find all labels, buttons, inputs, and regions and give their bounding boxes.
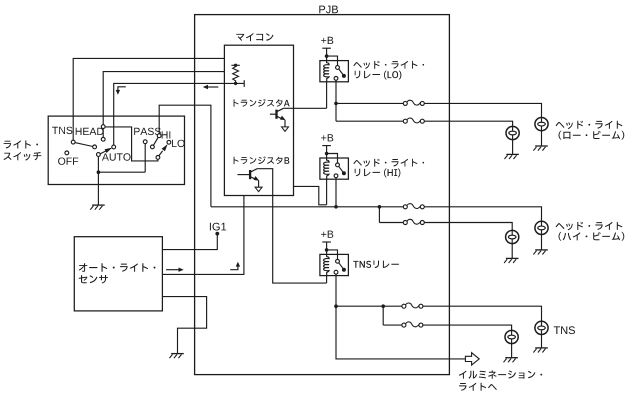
switch lever AUTO: [100, 148, 112, 154]
microcomputer box (マイコン): [224, 45, 293, 195]
wire +B to TNS coil: [326, 250, 328, 255]
resistor top rail: [231, 64, 239, 66]
wire lamp L to ground: [512, 140, 514, 155]
AUTO line end tick: [243, 80, 245, 87]
wire HEAD switch input to microcomputer: [103, 72, 224, 125]
transistor Q-B emitter: [250, 176, 259, 181]
ground of auto light sensor: [169, 354, 183, 359]
fuse HI row2: [403, 219, 424, 224]
label illumination line1: [459, 370, 542, 378]
switch lever HI: [154, 137, 159, 145]
contact wiper tip: [93, 145, 97, 149]
relay HI arm tip: [342, 171, 346, 175]
ground of TNS lamp L: [504, 358, 518, 363]
LO relay coil lead down: [326, 82, 328, 109]
wire PASS contact to common: [144, 144, 146, 173]
auto light sensor box: [74, 237, 162, 311]
node LO output junction: [334, 102, 338, 106]
wire HI relay output down: [335, 178, 337, 207]
transistor Q-A emitter to-ground arrow: [282, 127, 289, 131]
transistor Q-A emitter: [277, 116, 286, 121]
transistor Q-A emitter lead: [284, 120, 286, 127]
wire IG1 to sensor: [162, 234, 217, 250]
relay HI coil: [324, 158, 329, 179]
wire LO junction down: [335, 103, 337, 121]
relay LO label line1: [353, 61, 424, 69]
contact LO: [167, 140, 171, 144]
+B label of TNS: [321, 231, 333, 238]
contact HEAD upper: [101, 125, 105, 129]
illumination output arrow: [465, 353, 479, 365]
sensor label line2: [79, 275, 108, 284]
transistor Q-A base lead: [270, 113, 277, 115]
sensor label line1: [79, 263, 156, 272]
fuse TNS row2: [402, 322, 423, 327]
+B label of LO: [321, 37, 333, 44]
wire sensor output to microcomputer: [162, 196, 244, 275]
relay LO coil: [324, 61, 329, 82]
transistor Q-B base bar: [249, 170, 251, 179]
relay HI label line2: [355, 169, 401, 178]
wire TNS output to illumination: [336, 306, 465, 359]
relay TNS output contact: [334, 270, 338, 274]
wire switch common: [97, 156, 99, 172]
relay TNS movable arm: [339, 263, 344, 269]
wire HI row1: [211, 206, 403, 208]
wire +B to LO coil: [326, 56, 328, 61]
label OFF position: [58, 158, 78, 165]
+B label of HI: [321, 134, 333, 141]
wire LO row2 to fuse: [336, 120, 403, 122]
relay LO label line2: [355, 71, 402, 80]
wire common to PASS: [98, 171, 145, 173]
wire +B to HI coil: [326, 154, 328, 159]
relay LO output contact: [334, 77, 338, 81]
TNS relay coil lead down: [326, 276, 328, 284]
ground of TNS lamp R: [533, 348, 547, 353]
wire fuse to high-beam lamp R: [424, 207, 541, 222]
wire Q-B collector to TNS relay coil: [257, 169, 327, 283]
direction arrow right on sensor output: [166, 268, 184, 272]
fuse TNS row1: [402, 303, 423, 308]
relay HI movable arm: [339, 166, 344, 172]
label HI position: [162, 131, 171, 138]
label IG1: [210, 223, 226, 231]
wire fuse to TNS lamp L: [423, 325, 512, 330]
node HI output junction: [334, 205, 338, 209]
wire LO row1 to fuse: [336, 102, 403, 104]
wire sensor to ground: [162, 297, 206, 354]
transistor Q-A base bar: [275, 110, 277, 119]
label illumination line2: [459, 383, 497, 391]
label LO position: [172, 140, 185, 147]
PJB box: [195, 15, 450, 375]
wire high lamp L to ground: [511, 244, 513, 259]
+B terminal of LO: [322, 48, 331, 58]
ground of light switch: [90, 205, 104, 210]
wire lamp R to ground: [541, 131, 543, 146]
PJB label: [319, 6, 338, 14]
label head light high beam line2: [559, 232, 625, 241]
HI relay coil lead down: [326, 179, 328, 205]
transistor Q-B emitter lead: [258, 180, 260, 187]
fuse LO row1: [403, 100, 424, 105]
switch lever LO: [159, 144, 168, 156]
node TNS fuse branch: [381, 304, 385, 308]
label head light low beam line2: [559, 131, 625, 140]
resistor R (pull-up in microcomputer): [233, 65, 239, 83]
transistor Q-B emitter to-ground arrow: [255, 187, 262, 192]
lamp head light low R: [535, 118, 548, 131]
lamp head light high R: [535, 221, 548, 234]
lamp TNS L: [505, 330, 518, 343]
contact HEAD lower: [101, 137, 105, 141]
fuse HI row1: [403, 204, 424, 209]
wire +B to LO contact: [327, 56, 338, 67]
switch lever TNS: [75, 143, 93, 147]
relay LO box: [320, 61, 349, 82]
transistor Q-B collector: [250, 169, 257, 173]
relay TNS label: [353, 261, 399, 269]
relay TNS fixed contact (feed): [336, 259, 340, 263]
wire TNS lamp R to ground: [541, 335, 543, 348]
wire TNS branch down: [382, 306, 384, 325]
label head light high beam line1: [556, 222, 623, 231]
transistor Q-B base lead: [238, 174, 251, 176]
transistor Q-A collector: [277, 108, 284, 112]
light switch box: [48, 116, 184, 184]
label TNS lamp: [554, 326, 575, 334]
relay HI box: [320, 158, 349, 179]
resistor bottom junction on AUTO line: [234, 82, 237, 85]
relay TNS arm tip: [342, 268, 346, 272]
contact LO pivot: [156, 156, 160, 160]
lamp head light low L: [506, 126, 519, 139]
relay LO arm tip: [342, 74, 346, 78]
wire AUTO line microcomputer to switch: [114, 83, 245, 145]
relay HI label line1: [353, 159, 424, 167]
resistor top junction: [234, 64, 237, 67]
relay LO movable arm: [339, 69, 344, 75]
contact HI pivot: [151, 145, 155, 149]
ground of low-beam lamp L: [505, 154, 519, 159]
transistor B label: [234, 156, 290, 164]
label head light low beam line1: [556, 121, 623, 130]
relay TNS coil: [324, 254, 329, 275]
light switch label line1: [4, 140, 38, 148]
transistor A label: [234, 99, 290, 107]
wire LO relay output down: [335, 80, 337, 104]
wire TNS switch input to microcomputer: [73, 58, 224, 140]
wire TNS row1: [336, 305, 402, 307]
contact TNS: [71, 140, 75, 144]
wire +B to HI contact: [327, 154, 338, 165]
wire microcomputer to HI relay coil: [294, 186, 327, 204]
wire fuse to low-beam lamp L: [424, 121, 512, 126]
wire TNS lamp L to ground: [511, 344, 513, 358]
wire HI row2 to fuse: [379, 222, 403, 224]
label HEAD position: [76, 128, 104, 135]
+B terminal of TNS: [322, 242, 331, 252]
direction arrow down near switch on AUTO line: [116, 87, 126, 95]
contact OFF: [65, 151, 69, 155]
wire Q-A collector to LO relay coil: [284, 107, 327, 109]
wire TNS relay output down: [335, 274, 337, 306]
wire common to ground: [97, 172, 99, 205]
lamp TNS R: [535, 321, 548, 334]
relay HI fixed contact (feed): [336, 163, 340, 167]
lamp head light high L: [506, 230, 519, 243]
wire fuse to high-beam lamp L: [424, 223, 512, 231]
wire TNS row2 to fuse: [383, 324, 402, 326]
label AUTO position: [102, 153, 131, 160]
light switch label line2: [4, 152, 42, 161]
wire HI branch down: [378, 207, 380, 223]
ground of high-beam lamp L: [504, 258, 518, 263]
direction arrow left on AUTO line: [203, 85, 219, 89]
wire dimmer HI contact to HI output line: [159, 105, 211, 207]
relay LO fixed contact (feed): [336, 66, 340, 70]
wire HEAD feed to dimmer common: [105, 127, 158, 161]
wire fuse to TNS lamp R: [423, 306, 542, 321]
microcomputer label: [236, 33, 273, 41]
node switch common junction: [97, 170, 101, 174]
label PASS position: [134, 128, 161, 135]
contact wiper pivot: [97, 153, 101, 157]
node IG1 terminal: [215, 232, 219, 236]
direction arrow up near microcomputer: [230, 262, 240, 270]
node TNS output junction: [334, 304, 338, 308]
wire high lamp R to ground: [541, 235, 543, 250]
node HI fuse branch: [378, 205, 382, 209]
contact AUTO: [112, 145, 116, 149]
wire fuse to low-beam lamp R: [424, 103, 541, 117]
fuse LO row2: [403, 118, 424, 123]
ground of high-beam lamp R: [533, 250, 547, 255]
wire +B to TNS contact: [327, 250, 338, 261]
contact HI: [157, 134, 161, 138]
ground of low-beam lamp R: [533, 146, 547, 151]
relay TNS box: [320, 254, 349, 275]
label TNS position: [52, 127, 72, 134]
+B terminal of HI: [322, 146, 331, 156]
relay HI output contact: [334, 174, 338, 178]
wire between HEAD contacts: [102, 129, 104, 138]
contact PASS: [143, 140, 147, 144]
